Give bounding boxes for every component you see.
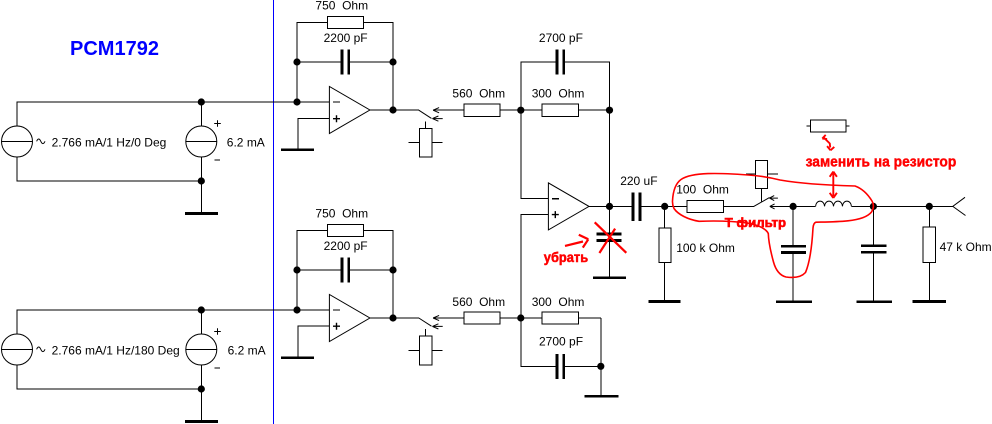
node dot stage2 fb right: [389, 266, 396, 273]
switch S3: [746, 161, 778, 209]
current source I3 2.766 mA 180 Deg: [2, 334, 33, 365]
svg-text:750 Ohm: 750 Ohm: [315, 0, 368, 13]
capacitor C2 2700 pF upper: [557, 50, 564, 75]
output connector: [953, 197, 966, 215]
ground C5: [593, 276, 626, 279]
node dot U2 output: [389, 314, 396, 321]
node dot stage1 fb left: [293, 58, 300, 65]
node dot stage1 fb right: [389, 58, 396, 65]
ground lower pair: [185, 389, 218, 422]
wire 2700pF loop lower left: [521, 318, 556, 366]
ground C7: [776, 300, 812, 303]
node dot U1 output: [389, 106, 396, 113]
svg-text:PCM1792: PCM1792: [70, 38, 159, 60]
svg-text:300 Ohm: 300 Ohm: [532, 295, 585, 309]
resistor R8 100 Ohm: [687, 200, 724, 212]
svg-text:2700 pF: 2700 pF: [539, 335, 583, 349]
svg-text:2200 pF: 2200 pF: [324, 31, 368, 45]
svg-text:2700 pF: 2700 pF: [539, 31, 583, 45]
red double arrow near spare resistor: [822, 135, 834, 150]
wire cap row left stage1: [297, 61, 341, 63]
wire U1 plus input: [298, 119, 330, 149]
svg-text:100 k Ohm: 100 k Ohm: [676, 241, 735, 255]
wire U1 output: [370, 109, 419, 111]
resistor R2 560 Ohm upper: [464, 104, 500, 116]
wire node G to output: [929, 205, 953, 207]
wire R5 to node C: [500, 317, 521, 319]
svg-text:убрать: убрать: [544, 250, 588, 265]
svg-text:6.2 mA: 6.2 mA: [227, 136, 265, 150]
wire C6 to node D: [641, 205, 687, 207]
svg-text:заменить на резистор: заменить на резистор: [806, 153, 957, 170]
node dot G: [926, 203, 933, 210]
resistor R6 300 Ohm lower: [521, 312, 601, 324]
wire 300 Ohm lower down: [600, 318, 602, 395]
wire I2 bottom stub: [200, 157, 202, 181]
node dot lower top rail: [198, 306, 205, 313]
resistor R1 750 Ohm: [328, 16, 364, 28]
capacitor C5 (crossed out): [597, 234, 622, 276]
wire node B down to U3 output: [609, 110, 611, 233]
svg-text:2.766 mA/1 Hz/180 Deg: 2.766 mA/1 Hz/180 Deg: [52, 344, 180, 358]
red X over capacitor C5: [595, 222, 627, 253]
wire bottom rail lower pair: [17, 365, 201, 389]
svg-text:100 Ohm: 100 Ohm: [676, 183, 729, 197]
wire 2700pF loop upper right: [565, 62, 610, 110]
wire node E to inductor: [793, 205, 816, 207]
node dot E: [790, 203, 797, 210]
ground R7: [649, 300, 681, 303]
minus mark I2: [215, 159, 221, 161]
wire cap row left stage2: [297, 269, 341, 271]
wire S3 to node E: [770, 205, 793, 207]
node dot C: [517, 314, 524, 321]
plus mark I4: [214, 328, 221, 335]
wire node A to U3 minus: [521, 110, 549, 198]
ground U1 plus: [281, 149, 314, 151]
svg-text:560 Ohm: 560 Ohm: [452, 295, 505, 309]
resistor R5 560 Ohm lower: [464, 312, 500, 324]
op-amp U1: [329, 87, 370, 134]
wire cap row right stage1: [350, 61, 393, 63]
current source I1 2.766 mA (signal): [2, 126, 33, 157]
wire R4 to right vertical: [363, 230, 393, 318]
wire R8 to switch S3: [724, 205, 754, 207]
svg-text:300 Ohm: 300 Ohm: [532, 87, 585, 101]
resistor R3 300 Ohm upper: [521, 104, 610, 116]
ground U2 plus: [281, 357, 314, 359]
capacitor C8 (second filter cap): [861, 206, 886, 300]
wire U2 plus input: [298, 326, 330, 356]
wire 2700pF loop lower right: [565, 365, 601, 367]
capacitor C3 2200 pF: [342, 258, 349, 283]
spare resistor R10 (unlabeled, top right): [807, 120, 850, 132]
node dot D: [661, 203, 668, 210]
node dot upper bottom rail: [198, 177, 205, 184]
red loop around T filter: [672, 174, 873, 278]
wire 2700pF loop upper: [521, 62, 556, 110]
sine symbol for I3: [37, 347, 45, 352]
current source I4 6.2 mA (bias): [186, 334, 217, 365]
ground upper pair: [185, 181, 218, 214]
wire I4 bottom stub: [200, 365, 202, 389]
op-amp U3: [548, 183, 589, 230]
node dot stage2 fb left: [293, 266, 300, 273]
wire I4 top stub: [200, 310, 202, 334]
wire cap row right stage2: [350, 269, 393, 271]
ground 2700pF lower: [584, 395, 618, 398]
node dot stage2 inverting input: [293, 306, 300, 313]
svg-text:2.766 mA/1 Hz/0 Deg: 2.766 mA/1 Hz/0 Deg: [52, 136, 167, 150]
node dot A: [517, 107, 524, 114]
wire R2 to node A: [500, 109, 521, 111]
current source I2 6.2 mA (bias): [186, 126, 217, 157]
capacitor C7 (first filter cap): [781, 206, 806, 300]
wire arrow to R5: [433, 317, 464, 319]
capacitor C1 2200 pF: [342, 50, 349, 75]
capacitor C6 220 uF: [633, 193, 640, 221]
wire bottom rail upper pair: [17, 157, 201, 181]
node dot upper top rail: [198, 98, 205, 105]
wire U3 output: [589, 205, 632, 207]
capacitor C4 2700 pF lower: [557, 354, 564, 379]
svg-text:560 Ohm: 560 Ohm: [452, 87, 505, 101]
wire feedback top loop stage1: [297, 22, 328, 102]
sine symbol for I1: [37, 139, 45, 144]
svg-text:2200 pF: 2200 pF: [324, 239, 368, 253]
wire top rail lower pair: [17, 310, 329, 334]
wire feedback top loop stage2: [297, 230, 328, 310]
node dot stage1 inverting input: [293, 98, 300, 105]
resistor R4 750 Ohm: [328, 224, 364, 236]
svg-text:6.2 mA: 6.2 mA: [228, 344, 266, 358]
wire inductor to node F: [851, 205, 929, 207]
node dot B: [606, 107, 613, 114]
node dot U3 output: [606, 203, 613, 210]
wire top rail upper pair: [17, 102, 329, 126]
svg-text:47 k Ohm: 47 k Ohm: [940, 240, 992, 254]
node dot lower bottom rail: [198, 385, 205, 392]
resistor R7 100 k Ohm: [659, 206, 671, 300]
wire arrow to R2: [433, 109, 464, 111]
svg-text:220 uF: 220 uF: [620, 174, 657, 188]
red arrow to C5: [565, 235, 588, 248]
svg-text:Т фильтр: Т фильтр: [725, 215, 786, 230]
node dot 2700pF lower: [597, 363, 604, 370]
blue divider line: [273, 0, 275, 424]
plus mark I2: [214, 120, 221, 127]
svg-text:750 Ohm: 750 Ohm: [315, 207, 368, 221]
wire node C to U3 plus: [521, 215, 549, 318]
inductor L1: [816, 201, 852, 206]
red double arrow below label: [830, 172, 837, 198]
wire I2 top stub: [200, 102, 202, 126]
switch S1: [408, 108, 442, 157]
minus mark I4: [215, 367, 221, 369]
node dot F: [870, 203, 877, 210]
wire U2 output: [370, 317, 419, 319]
ground C8: [857, 300, 893, 303]
resistor R9 47 k Ohm: [923, 206, 936, 300]
op-amp U2: [329, 295, 370, 342]
ground R9: [913, 300, 947, 303]
wire R1 to right vertical: [363, 22, 393, 110]
switch S2: [408, 315, 442, 364]
